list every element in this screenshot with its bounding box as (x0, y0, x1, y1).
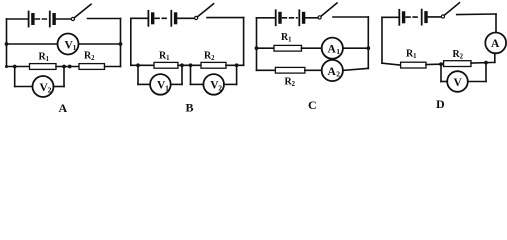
resistor R1 (circuit B) (154, 62, 178, 68)
wire: A right vertical (120, 19, 122, 67)
svg-text:2: 2 (336, 70, 340, 79)
svg-text:2: 2 (292, 81, 296, 88)
wire: D switch contact to top-right corner (457, 13, 496, 16)
wire: C top-left to battery (257, 17, 276, 19)
label R1 (circuit D) (406, 49, 417, 61)
wire: C switch contact to top-right corner (333, 16, 368, 18)
label R2 (circuit A) (84, 51, 95, 63)
label R1 (circuit B) (159, 50, 170, 62)
wire: D V left lead across (441, 81, 447, 83)
resistor R2 (circuit A) (79, 64, 105, 70)
svg-text:A: A (59, 101, 68, 115)
node: B V1 right junction (180, 63, 184, 67)
svg-text:C: C (308, 98, 317, 112)
label R2 (circuit C) (285, 77, 296, 89)
battery GB (circuit C, two cells with dashed gap) (276, 10, 304, 25)
node: A right V1 junction (119, 42, 123, 46)
svg-text:1: 1 (288, 36, 292, 43)
switch S (circuit A, open knife switch) (71, 4, 91, 20)
ammeter A1 (circuit C) (322, 38, 343, 59)
svg-text:2: 2 (211, 55, 215, 62)
wire: B right vertical (243, 18, 245, 66)
switch S (circuit C, open knife switch) (318, 3, 337, 19)
voltmeter V1 (circuit A) (58, 34, 79, 55)
wire: C right vertical (367, 17, 369, 68)
wire: B top-left to battery (131, 17, 149, 19)
wire: B left vertical (130, 18, 132, 65)
wire: A left vertical (6, 19, 8, 67)
wire: A battery to switch (54, 18, 71, 20)
wire: D between R1 and R2 (426, 63, 444, 66)
ammeter A2 (circuit C) (322, 60, 343, 81)
wire: A top-left to battery (7, 18, 29, 20)
wire: A resistor-row right segment (105, 66, 121, 68)
svg-text:V: V (454, 77, 463, 89)
wire: A voltmeter-row left segment (7, 43, 58, 45)
wire: A resistor-row left segment (7, 66, 30, 68)
wire: B V2 right lead up (236, 65, 238, 84)
svg-text:2: 2 (91, 55, 95, 62)
node: B V1 left junction (136, 63, 140, 67)
wire: C branch1 left segment (257, 47, 275, 49)
battery GB (circuit A, two cells with dashed gap) (29, 12, 54, 27)
switch S (circuit B, open knife switch) (195, 4, 214, 20)
resistor R2 (circuit D) (444, 61, 471, 67)
voltmeter V1 (circuit B) (150, 74, 171, 95)
wire: B between R1 and R2 (178, 64, 201, 66)
wire: D left vertical (381, 17, 383, 63)
resistor R1 (circuit D) (401, 62, 426, 68)
resistor R2 (circuit B) (201, 62, 226, 68)
node: D junction between R1 and R2 (439, 62, 443, 66)
wire: B battery to switch (176, 17, 195, 19)
svg-text:1: 1 (73, 43, 77, 52)
svg-text:1: 1 (336, 47, 340, 56)
wire: A switch contact to top-right corner (88, 18, 121, 20)
wire: D resistor-row left segment (382, 63, 401, 65)
wire: D V right lead up (485, 63, 487, 82)
wire: B V1 right lead up (181, 65, 183, 84)
wire: A V2 right lead up (63, 67, 65, 87)
wire: D V right lead across (468, 81, 486, 83)
svg-text:1: 1 (166, 55, 170, 62)
svg-text:1: 1 (46, 56, 50, 63)
wire: C left vertical (256, 18, 258, 71)
wire: B V1 left lead down (137, 65, 139, 84)
battery GB (circuit D, two cells with dashed gap) (399, 10, 426, 25)
svg-text:B: B (186, 101, 194, 115)
svg-text:A: A (491, 38, 500, 50)
wire: D V left lead down (440, 64, 442, 81)
wire: A V2 right lead across (54, 86, 65, 88)
resistor R1 (circuit C) (274, 45, 302, 51)
wire: A between R1 and R2 (56, 66, 79, 68)
node: A V2 left junction (13, 65, 17, 69)
label R2 (circuit D) (453, 49, 464, 61)
wire: D right vertical below ammeter (494, 53, 496, 62)
svg-text:1: 1 (413, 53, 417, 60)
node: A bottom-left corner junction (5, 65, 8, 68)
label R1 (circuit A) (39, 52, 50, 64)
wire: D top-left to battery (382, 16, 399, 18)
resistor R1 (circuit A) (30, 64, 57, 70)
wire: B resistor-row left segment (131, 64, 154, 66)
wire: B V2 left lead down (190, 65, 192, 84)
wire: D battery to switch (426, 16, 441, 18)
node: B V2 right junction (235, 63, 239, 67)
ammeter A (circuit D) (485, 33, 506, 54)
svg-text:1: 1 (165, 83, 169, 92)
svg-text:D: D (436, 97, 445, 111)
node: C branch1 left junction (255, 46, 259, 50)
wire: B V1 right lead across (171, 83, 182, 85)
voltmeter V2 (circuit A) (33, 76, 54, 97)
wire: A V2 left lead across (15, 86, 33, 88)
voltmeter V (circuit D) (447, 71, 468, 92)
wire: C branch1 right segment (343, 47, 368, 49)
resistor R2 (circuit C) (275, 67, 305, 73)
label R2 (circuit B) (204, 51, 215, 63)
node: C branch1 right junction (366, 46, 370, 50)
node: A mid junction 2 (68, 65, 72, 69)
node: B V2 left junction (189, 63, 193, 67)
voltmeter V2 (circuit B) (203, 74, 224, 95)
wire: A voltmeter-row right segment (79, 43, 121, 45)
label R1 (circuit C) (281, 32, 292, 44)
wire: B resistor-row right segment (226, 64, 244, 66)
node: D V right junction (484, 61, 488, 65)
wire: C branch2 middle segment (305, 69, 322, 71)
wire: B V2 left lead across (191, 83, 204, 85)
wire: C branch2 left segment (257, 69, 276, 71)
svg-text:A: A (328, 66, 337, 78)
node: A left V1 junction (5, 42, 9, 46)
svg-text:2: 2 (218, 83, 222, 92)
wire: D resistor-row right segment (471, 61, 495, 64)
switch S (circuit D, open knife switch) (441, 3, 459, 18)
wire: A V2 left lead down (14, 67, 16, 87)
wire: C branch2 right segment (343, 68, 368, 70)
node: A mid junction 1 (62, 65, 66, 69)
svg-text:2: 2 (460, 53, 464, 60)
wire: D right vertical above ammeter (495, 14, 497, 33)
wire: B switch contact to top-right corner (207, 17, 244, 19)
wire: B V1 left lead across (138, 83, 150, 85)
wire: C battery to switch (304, 17, 318, 19)
svg-text:A: A (328, 44, 337, 56)
battery GB (circuit B, two cells with dashed gap) (148, 11, 175, 26)
wire: C branch1 middle segment (302, 47, 322, 49)
svg-text:2: 2 (48, 86, 52, 95)
wire: B V2 right lead across (224, 83, 237, 85)
